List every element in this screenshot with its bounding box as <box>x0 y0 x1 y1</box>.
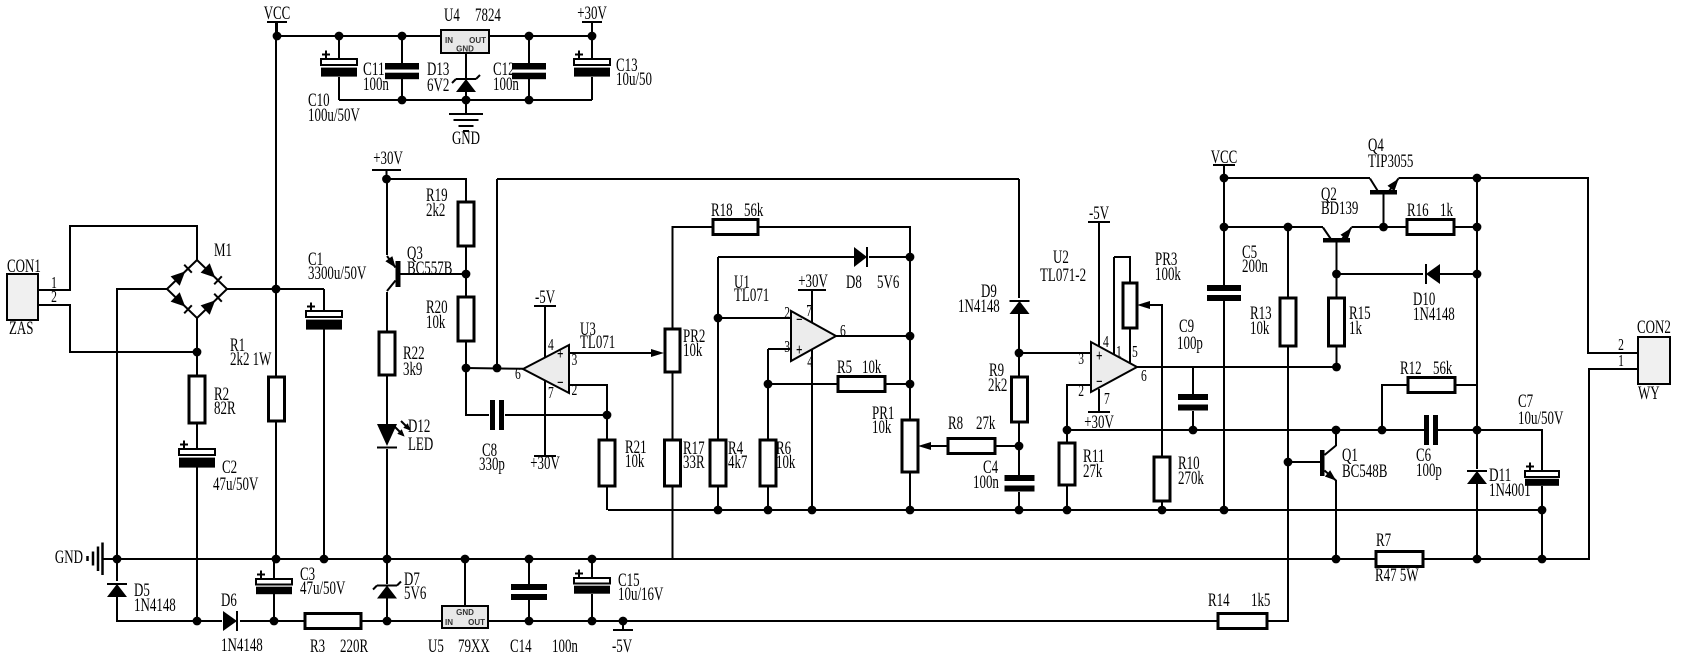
wire D7 to negative row <box>386 598 388 621</box>
diode D5 1N4148 <box>107 584 127 597</box>
svg-text:2: 2 <box>572 380 578 399</box>
wire D8 to x910 node <box>869 256 910 258</box>
junctions sense rail <box>714 506 1547 515</box>
wire VCC down to C5 <box>1223 178 1225 285</box>
resistor R13 10k <box>1280 298 1296 346</box>
wire C11 bottom lead <box>401 79 403 100</box>
svg-text:−: − <box>557 373 564 392</box>
potentiometer PR1 10k <box>902 420 918 472</box>
svg-text:1N4148: 1N4148 <box>221 635 263 656</box>
wire C14 to row <box>528 600 530 621</box>
capacitor C2 47u/50V electrolytic <box>179 441 215 468</box>
svg-text:1: 1 <box>1116 342 1122 361</box>
svg-text:CON2: CON2 <box>1637 317 1671 338</box>
wire node to C8 left <box>466 368 489 415</box>
svg-text:R12: R12 <box>1400 358 1422 379</box>
wire VCC vertical <box>275 22 277 289</box>
wire R18 right down to D8 row <box>758 227 910 257</box>
svg-text:GND: GND <box>55 547 83 568</box>
svg-text:1k: 1k <box>1349 318 1362 339</box>
wire bridge AC2 node down to R2 <box>196 318 198 376</box>
op-amp U1 TL071 <box>791 311 836 361</box>
svg-text:1k5: 1k5 <box>1251 590 1270 611</box>
wire R19 to R20 <box>465 246 467 297</box>
resistor R9 2k2 <box>1012 377 1028 422</box>
wire R3 to U5 IN <box>361 620 442 622</box>
svg-text:100n: 100n <box>493 74 519 95</box>
wire C5 bottom to sense rail <box>1223 301 1225 510</box>
svg-text:GND: GND <box>456 608 474 617</box>
svg-text:10k: 10k <box>625 451 645 472</box>
svg-text:ZAS: ZAS <box>9 318 34 339</box>
svg-text:TL071-2: TL071-2 <box>1040 265 1086 286</box>
arrowhead PR3 wiper <box>1137 301 1150 309</box>
power symbol -5V left <box>613 621 633 630</box>
svg-text:47u/50V: 47u/50V <box>213 474 259 495</box>
bridge diode D left-top <box>171 265 192 286</box>
svg-text:3: 3 <box>784 337 790 356</box>
wire D5 to negative row <box>117 597 222 621</box>
svg-text:R16: R16 <box>1407 200 1429 221</box>
wire GND rail to C15 <box>591 559 593 578</box>
wire PR3 bottom to U2 pin5 <box>1129 328 1131 363</box>
wire C8 right to R21 node <box>505 414 607 416</box>
op-amp U3 TL071 <box>523 345 569 393</box>
svg-text:C14: C14 <box>510 636 532 657</box>
svg-text:10u/50: 10u/50 <box>616 69 652 90</box>
svg-text:82R: 82R <box>214 398 236 419</box>
wire U2 output row <box>1137 366 1336 368</box>
svg-text:R14: R14 <box>1208 590 1230 611</box>
junctions GND rail / negative row <box>113 555 628 626</box>
wire output rail vertical <box>1476 178 1478 469</box>
junctions top rail <box>273 32 597 105</box>
LED D12 <box>377 421 411 448</box>
wire D10 row left <box>1337 273 1424 275</box>
svg-text:R47 5W: R47 5W <box>1375 565 1419 586</box>
svg-text:+30V: +30V <box>373 148 403 169</box>
resistor R4 4k7 <box>710 440 726 486</box>
svg-text:2: 2 <box>1078 381 1084 400</box>
wire GND rail <box>103 558 1376 560</box>
svg-text:7: 7 <box>548 383 554 402</box>
svg-text:27k: 27k <box>976 413 996 434</box>
wire C2 to negative row <box>196 467 198 621</box>
wire U1 output <box>836 335 910 337</box>
wire D6 to R3 <box>240 620 305 622</box>
svg-text:5V6: 5V6 <box>404 583 426 604</box>
svg-text:GND: GND <box>452 128 480 149</box>
svg-text:1k: 1k <box>1440 200 1453 221</box>
svg-text:330p: 330p <box>479 454 505 475</box>
connector CON1 <box>7 274 38 320</box>
diode D11 1N4001 <box>1467 471 1487 484</box>
diode D6 1N4148 <box>223 611 237 631</box>
resistor R15 1k <box>1329 298 1345 346</box>
power symbol -5V U2 <box>1088 222 1110 346</box>
wire R16 right to output rail <box>1454 226 1477 228</box>
power symbol +30V top <box>582 22 602 36</box>
wire U2 pin3 <box>1019 352 1091 354</box>
wire PR2 top to R18 <box>673 227 714 329</box>
potentiometer PR3 100k <box>1123 283 1137 328</box>
resistor R12 56k <box>1408 378 1455 393</box>
wire VCC rail to U4 IN <box>277 35 441 37</box>
wire U5 GND pin <box>464 559 466 606</box>
wire +30V to R19 <box>387 179 467 202</box>
resistor R14 1k5 <box>1218 614 1267 629</box>
svg-text:BC557B: BC557B <box>407 258 452 279</box>
wire offset link to PR3 top <box>1114 257 1130 283</box>
capacitor C9 100p <box>1178 394 1208 411</box>
svg-text:+: + <box>796 340 803 359</box>
wire bridge negative to GND rail <box>117 289 167 559</box>
wire Q1 emitter to GND rail <box>1335 480 1337 559</box>
resistor R7 R47 5W <box>1376 552 1423 567</box>
wire R8 right to R9 node <box>995 445 1020 447</box>
svg-text:2k2: 2k2 <box>426 200 445 221</box>
junctions left section <box>193 285 281 357</box>
resistor R20 10k <box>458 297 474 341</box>
svg-text:5V6: 5V6 <box>877 272 899 293</box>
svg-text:10k: 10k <box>776 452 796 473</box>
wire GND rail to C14 <box>528 559 530 584</box>
transistor Q4 TIP3055 NPN <box>1370 179 1399 195</box>
wire Q1 base node down to R14 <box>1267 462 1288 621</box>
capacitor C14 100n <box>511 584 547 600</box>
svg-text:220R: 220R <box>340 636 368 657</box>
svg-text:33R: 33R <box>683 452 705 473</box>
wire CON1 pin1 to bridge AC1 <box>38 226 197 290</box>
capacitor C5 200n <box>1207 285 1241 301</box>
wire C15 to row <box>591 594 593 621</box>
svg-text:-5V: -5V <box>612 636 632 657</box>
svg-text:10k: 10k <box>683 340 703 361</box>
resistor R21 10k <box>599 440 615 486</box>
wire C13 bottom lead <box>591 77 593 100</box>
junctions U3 area <box>382 175 611 420</box>
svg-text:GND: GND <box>456 45 474 54</box>
wire Q1 base <box>1288 461 1320 463</box>
wire D10 anode to output rail <box>1440 273 1477 275</box>
svg-text:79XX: 79XX <box>458 636 490 657</box>
wire top section bottom rail <box>339 99 592 101</box>
svg-text:R18: R18 <box>711 200 733 221</box>
svg-text:U4: U4 <box>444 5 460 26</box>
svg-text:10k: 10k <box>1250 318 1270 339</box>
wire U3 pin2 to C8/R21 node <box>569 385 607 440</box>
wire R20 to U3 output node <box>465 341 467 368</box>
capacitor C3 47u/50V electrolytic <box>256 571 292 595</box>
svg-text:4: 4 <box>548 335 554 354</box>
wire C6 right to output rail <box>1437 429 1477 431</box>
wire C3 to negative row <box>273 592 275 621</box>
bridge diode D bottom-right <box>201 294 222 315</box>
svg-text:100p: 100p <box>1416 460 1442 481</box>
op-amp U2 TL071-2 <box>1091 342 1137 392</box>
wire R13 to Q1 base node <box>1287 346 1289 462</box>
svg-text:+30V: +30V <box>798 271 828 292</box>
wire U1 pin2 <box>718 317 791 319</box>
svg-text:2k2: 2k2 <box>988 375 1007 396</box>
wire D12 cathode to GND rail <box>386 449 388 559</box>
capacitor C4 100n <box>1005 475 1035 492</box>
wire R11 to sense rail <box>1066 485 1068 510</box>
wire output rail to C7 top <box>1477 430 1542 471</box>
wire feedback down to U3 node <box>496 179 498 368</box>
svg-text:6: 6 <box>515 364 521 383</box>
wire Q4 base <box>1383 194 1385 227</box>
svg-text:+30V: +30V <box>530 453 560 474</box>
zener diode D7 5V6 <box>373 582 401 599</box>
svg-text:D6: D6 <box>221 590 237 611</box>
wire U3 output node <box>466 367 523 370</box>
resistor R8 27k <box>948 439 995 454</box>
wire C11 top lead <box>401 36 403 63</box>
svg-text:100n: 100n <box>552 636 578 657</box>
svg-text:VCC: VCC <box>1211 147 1238 168</box>
wire PR1 to sense rail <box>909 472 911 510</box>
capacitor C8 330p <box>490 400 504 430</box>
resistor R3 220R <box>305 614 361 629</box>
arrowhead PR2 wiper <box>651 349 664 357</box>
wire U1 pin4 to sense rail <box>811 350 813 510</box>
ground GND top <box>449 114 483 131</box>
capacitor C10 100u/50V electrolytic <box>321 51 357 77</box>
resistor R17 33R <box>665 440 681 486</box>
wire PR2 bottom to R17 <box>672 372 674 440</box>
wire Q3 emitter lead <box>386 179 388 255</box>
wire R15 to U2 output row <box>1336 346 1338 367</box>
wire Q2 rail to R13 <box>1287 227 1289 298</box>
wire R6 to sense rail <box>767 486 769 510</box>
wire GND rail to C3 <box>273 559 275 579</box>
svg-text:R5: R5 <box>837 357 852 378</box>
power symbol +30V Q3 <box>372 170 401 179</box>
svg-text:56k: 56k <box>744 200 764 221</box>
resistor R6 10k <box>760 440 776 486</box>
svg-text:10k: 10k <box>862 357 882 378</box>
wire GND rail to D7 <box>386 559 388 584</box>
wire U4 GND pin to D13 <box>465 53 467 78</box>
wire C1 to GND rail <box>323 329 325 559</box>
power symbol VCC right <box>1213 165 1235 178</box>
svg-text:2: 2 <box>784 303 790 322</box>
svg-text:IN: IN <box>445 36 453 45</box>
svg-text:BD139: BD139 <box>1321 198 1358 219</box>
svg-text:WY: WY <box>1638 383 1660 404</box>
bridge diode D top-right <box>201 263 222 284</box>
wire VCC node to R1 <box>275 289 277 377</box>
resistor R18 56k <box>713 220 758 235</box>
svg-text:OUT: OUT <box>468 618 485 627</box>
svg-text:+: + <box>557 344 564 363</box>
svg-text:4k7: 4k7 <box>728 452 747 473</box>
wire R2 to C2 <box>196 423 198 449</box>
svg-text:6V2: 6V2 <box>427 75 449 96</box>
wire PR3 wiper to R10 <box>1142 305 1162 457</box>
wire C10 top lead <box>338 36 340 59</box>
wire pin2 net vertical to R4 <box>717 257 719 440</box>
svg-text:BC548B: BC548B <box>1342 461 1387 482</box>
capacitor C1 3300u/50V electrolytic <box>306 303 342 330</box>
wire Q3 collector to R22 <box>386 292 388 332</box>
transistor Q3 BC557B PNP <box>386 256 401 291</box>
svg-text:D8: D8 <box>846 272 862 293</box>
resistor R10 270k <box>1154 457 1170 501</box>
wire VCC rail to Q4 collector <box>1224 177 1370 179</box>
junctions U2 area <box>1015 349 1198 451</box>
wire R5 left <box>768 383 838 385</box>
IC U5 79XX regulator <box>442 606 488 628</box>
svg-text:10k: 10k <box>426 312 446 333</box>
wire PR1 wiper to R8 <box>923 445 948 447</box>
power symbol VCC top <box>267 22 287 36</box>
capacitor C7 10u/50V electrolytic <box>1525 463 1559 486</box>
IC U4 7824 regulator <box>441 30 489 54</box>
svg-text:3k9: 3k9 <box>403 359 422 380</box>
wire Q2 base to D10 row / R15 <box>1336 242 1338 298</box>
svg-text:-5V: -5V <box>1089 203 1109 224</box>
wire R21 to sense rail <box>606 486 608 510</box>
svg-text:+: + <box>1096 346 1103 365</box>
wire U2 pin1 <box>1113 257 1115 355</box>
diode D9 1N4148 <box>1010 301 1030 314</box>
resistor R16 1k <box>1407 220 1454 235</box>
wire Q3 base to R19/R20 junction <box>401 273 467 275</box>
wire C7 bottom to output negative <box>1541 486 1543 559</box>
capacitor C11 100n <box>385 63 419 79</box>
power symbol +30V U2 <box>1088 389 1110 412</box>
wire R22 to D12 <box>386 375 388 424</box>
wire C9 bottom lead <box>1192 411 1194 430</box>
wire D8 row left <box>718 256 854 258</box>
junctions right section <box>1220 174 1547 564</box>
svg-text:2k2 1W: 2k2 1W <box>230 349 271 370</box>
wire output negative row to CON2 pin1 <box>1423 369 1638 559</box>
svg-text:5: 5 <box>1132 342 1138 361</box>
connector CON2 <box>1638 337 1670 384</box>
svg-text:100u/50V: 100u/50V <box>308 105 360 126</box>
diode D10 1N4148 <box>1426 264 1440 284</box>
svg-text:6: 6 <box>840 321 846 340</box>
wire D13 anode to rail <box>465 92 467 100</box>
wire feedback +30V segment <box>497 178 1019 180</box>
wire D9 anode to R9 node <box>1018 314 1020 353</box>
wire U4 OUT to +30V <box>489 35 592 37</box>
wire D11 anode to output negative <box>1476 484 1478 559</box>
ground symbol GND left <box>88 543 118 576</box>
svg-text:U5: U5 <box>428 636 444 657</box>
zener diode D8 5V6 <box>854 247 867 267</box>
wire U3 pin3 to PR2 wiper <box>569 352 659 354</box>
resistor R1 2k2 1W <box>269 377 285 421</box>
wire R1 to GND rail <box>275 421 277 559</box>
wire Q4 emitter to output / CON2 pin2 <box>1399 178 1639 353</box>
svg-text:10u/16V: 10u/16V <box>618 584 664 605</box>
svg-text:−: − <box>1096 372 1103 391</box>
svg-text:CON1: CON1 <box>7 256 41 277</box>
svg-text:1N4148: 1N4148 <box>958 296 1000 317</box>
svg-text:47u/50V: 47u/50V <box>300 578 346 599</box>
wire R5 right to x910 node <box>885 383 910 385</box>
svg-text:3300u/50V: 3300u/50V <box>308 263 366 284</box>
svg-text:TIP3055: TIP3055 <box>1368 151 1413 172</box>
svg-text:VCC: VCC <box>264 3 291 24</box>
svg-text:1N4148: 1N4148 <box>134 595 176 616</box>
wire rail to GND symbol <box>465 100 467 113</box>
wire GND rail to D5 <box>116 559 118 581</box>
wire C13 top lead <box>591 36 593 59</box>
svg-text:6: 6 <box>1141 366 1147 385</box>
svg-text:−: − <box>796 310 803 329</box>
wire node to C4 <box>1018 446 1020 475</box>
wire R4 to sense rail <box>717 486 719 510</box>
wire C12 bottom lead <box>528 79 530 100</box>
svg-text:7: 7 <box>1104 389 1110 408</box>
wire feedback segment down to D9 <box>1018 179 1020 298</box>
svg-text:R7: R7 <box>1376 530 1391 551</box>
svg-text:56k: 56k <box>1433 358 1453 379</box>
zener diode D13 6V2 <box>452 75 480 92</box>
wire R12 right to output rail <box>1455 384 1477 386</box>
wire Q1 collector to feedback row <box>1335 430 1337 446</box>
wire negative -5V row <box>488 620 1218 622</box>
svg-text:100n: 100n <box>973 472 999 493</box>
wire node to R9 <box>1018 353 1020 377</box>
wire C10 bottom lead <box>338 77 340 100</box>
resistor R19 2k2 <box>458 202 474 246</box>
wire bridge positive to C1 <box>227 288 324 290</box>
capacitor C6 100p <box>1424 415 1438 445</box>
svg-text:-5V: -5V <box>535 287 555 308</box>
potentiometer PR2 10k <box>665 329 680 372</box>
capacitor C12 100n <box>512 63 546 79</box>
wire U2 pin2 to R11 <box>1067 385 1091 443</box>
svg-text:270k: 270k <box>1178 468 1204 489</box>
bridge rectifier M1 <box>167 260 227 318</box>
svg-text:TL071: TL071 <box>580 332 615 353</box>
wire R10 to sense rail <box>1161 501 1163 510</box>
svg-text:200n: 200n <box>1242 256 1268 277</box>
wire Q2 emitter to Q4 base / R16 <box>1352 226 1408 228</box>
power symbol -5V U3 <box>534 306 556 357</box>
wire x910 vertical <box>909 227 911 420</box>
svg-text:TL071: TL071 <box>734 285 769 306</box>
svg-text:+30V: +30V <box>577 3 607 24</box>
wire C1 top lead <box>323 289 325 311</box>
svg-text:100n: 100n <box>363 74 389 95</box>
svg-text:100k: 100k <box>1155 264 1181 285</box>
resistor R11 27k <box>1059 443 1075 485</box>
svg-text:1: 1 <box>1618 351 1624 370</box>
resistor R2 82R <box>189 376 205 423</box>
wire R17 to GND rail <box>672 486 674 559</box>
wire pin3 net vertical to R6 <box>767 349 769 440</box>
svg-text:100p: 100p <box>1177 333 1203 354</box>
svg-text:3: 3 <box>1078 349 1084 368</box>
svg-text:1N4148: 1N4148 <box>1413 304 1455 325</box>
wire U1 pin3 <box>768 348 791 350</box>
svg-text:10u/50V: 10u/50V <box>1518 408 1564 429</box>
transistor Q1 BC548B NPN <box>1320 446 1336 481</box>
svg-text:LED: LED <box>408 434 433 455</box>
junctions U1 area <box>714 253 915 389</box>
transistor Q2 BD139 NPN <box>1323 228 1352 243</box>
bridge diode D left-bottom <box>171 292 192 313</box>
svg-text:27k: 27k <box>1083 461 1103 482</box>
svg-text:1N4001: 1N4001 <box>1489 480 1531 501</box>
